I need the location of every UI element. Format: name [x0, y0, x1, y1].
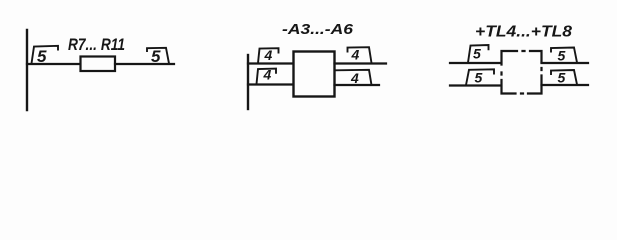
wire lower-right of A3 box	[335, 84, 380, 86]
wire upper-right of A3 box	[335, 62, 387, 64]
device box TL4...TL8 (dash-dot outline)	[502, 51, 542, 94]
device box U=A3...A6	[294, 52, 335, 97]
wire upper-right of TL4 box	[542, 62, 589, 64]
group-count flag "5" lower-left of TL4 box	[466, 69, 494, 85]
group-count flag "5" upper-right of TL4 box	[551, 48, 577, 64]
svg-text:4: 4	[350, 70, 359, 86]
svg-text:4: 4	[351, 47, 360, 63]
svg-text:5: 5	[37, 47, 47, 66]
group-count flag "5" upper-left of TL4 box	[468, 45, 489, 63]
bus line left (group line, 5 conductors)	[26, 30, 28, 110]
bus line of module A3 group	[247, 55, 249, 109]
svg-text:5: 5	[151, 47, 161, 66]
svg-text:4: 4	[263, 67, 272, 83]
wire upper-left of A3 box	[248, 62, 293, 64]
svg-text:R7... R11: R7... R11	[68, 35, 125, 54]
svg-text:5: 5	[558, 70, 566, 86]
group-count flag "4" lower-right of A3 box	[335, 70, 372, 86]
wire lower-left of A3 box	[248, 83, 293, 85]
group-count flag "5" right of resistor	[147, 47, 169, 66]
group-count flag "4" upper-left of A3 box	[258, 47, 279, 63]
svg-text:5: 5	[473, 46, 481, 62]
resistor R7...R11	[81, 57, 116, 72]
group-count flag "4" lower-left of A3 box	[257, 67, 277, 85]
svg-text:5: 5	[475, 70, 483, 86]
wire from resistor to right end	[115, 63, 174, 65]
svg-text:5: 5	[558, 48, 566, 64]
svg-text:4: 4	[264, 47, 273, 63]
wire upper-left of TL4 box	[450, 62, 501, 64]
wire from bus to resistor R7	[27, 63, 80, 65]
wire lower-right of TL4 box	[542, 84, 589, 86]
group-count flag "5" left of resistor	[32, 46, 59, 66]
svg-text:+TL4...+TL8: +TL4...+TL8	[475, 24, 572, 41]
group-count flag "4" upper-right of A3 box	[348, 47, 372, 64]
svg-text:-A3...-A6: -A3...-A6	[282, 21, 354, 38]
wire lower-left of TL4 box	[450, 84, 501, 86]
group-count flag "5" lower-right of TL4 box	[551, 70, 577, 86]
